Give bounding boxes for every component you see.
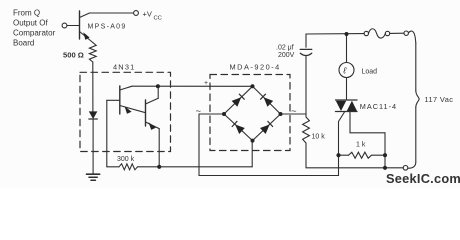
svg-text:200V: 200V <box>278 52 295 59</box>
svg-text:1 k: 1 k <box>356 142 366 149</box>
svg-text:CC: CC <box>154 16 162 22</box>
svg-text:Comparator: Comparator <box>13 29 56 38</box>
svg-text:Load: Load <box>362 68 378 75</box>
svg-text:SeekIC.com: SeekIC.com <box>386 171 460 186</box>
svg-text:~: ~ <box>196 106 202 117</box>
svg-text:117 Vac: 117 Vac <box>425 95 454 104</box>
svg-text:+: + <box>204 80 208 87</box>
svg-text:Board: Board <box>13 39 34 48</box>
svg-text:10 k: 10 k <box>312 134 326 141</box>
svg-text:4N31: 4N31 <box>113 63 135 72</box>
svg-text:.02 μf: .02 μf <box>276 44 294 51</box>
svg-text:500 Ω: 500 Ω <box>63 51 84 60</box>
svg-text:MAC11-4: MAC11-4 <box>360 102 397 111</box>
svg-text:MDA-920-4: MDA-920-4 <box>230 62 281 71</box>
svg-text:~: ~ <box>291 106 297 117</box>
svg-text:+V: +V <box>143 10 152 19</box>
svg-text:From Q: From Q <box>13 9 40 18</box>
svg-text:Output Of: Output Of <box>13 19 48 28</box>
svg-text:ℓ: ℓ <box>342 66 346 76</box>
svg-text:300 k: 300 k <box>117 156 135 163</box>
svg-text:MPS-A09: MPS-A09 <box>88 24 127 31</box>
